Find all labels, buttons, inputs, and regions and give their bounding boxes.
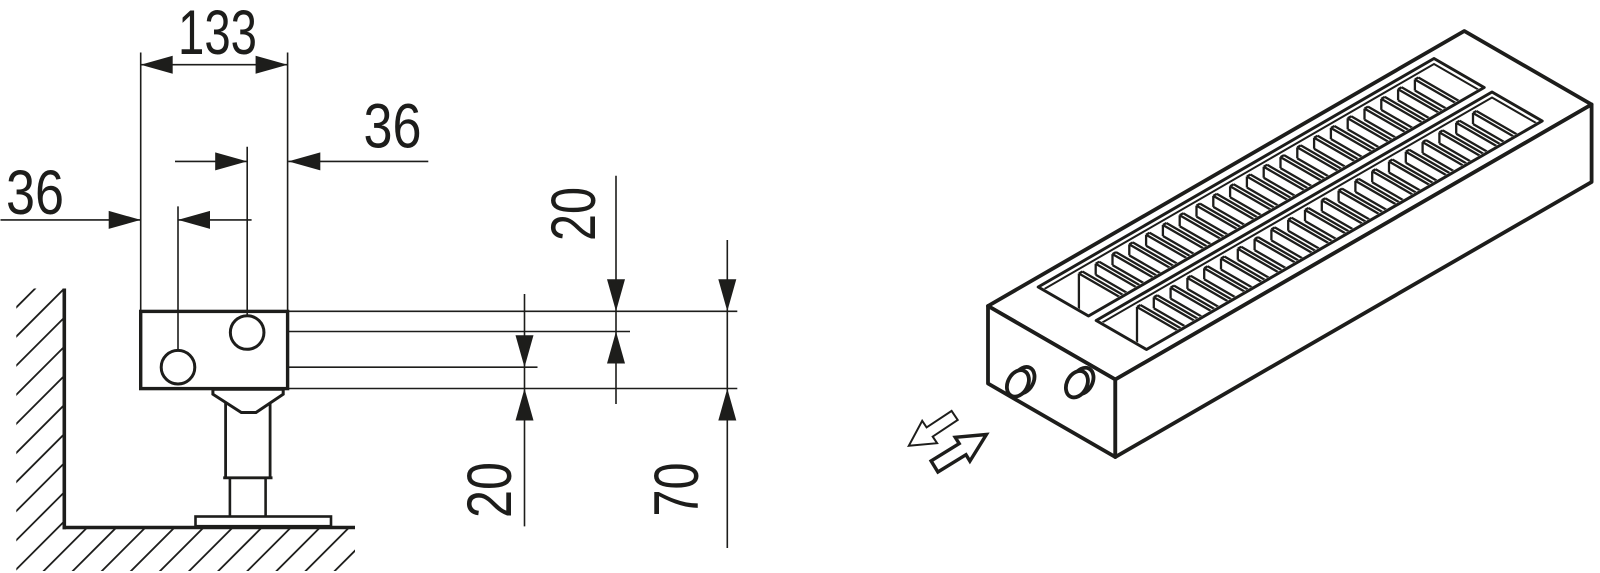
leg upper column <box>226 400 271 478</box>
dimension 133 <box>141 56 288 74</box>
svg-text:36: 36 <box>6 158 64 228</box>
slot 1 opening <box>1038 59 1484 317</box>
body top extension line <box>288 310 737 312</box>
leg lower column <box>230 478 266 517</box>
floor <box>63 526 356 530</box>
isometric convector outline <box>988 31 1592 457</box>
slot 2 opening <box>1096 92 1542 350</box>
svg-text:133: 133 <box>178 0 257 68</box>
upper connection hole <box>230 316 264 350</box>
svg-text:36: 36 <box>364 92 422 162</box>
convector body <box>141 311 288 388</box>
slot 1 fins <box>1079 78 1469 342</box>
label 36 left <box>6 158 64 228</box>
leg step <box>223 476 272 479</box>
label 20 top <box>539 187 609 241</box>
body bottom extension line <box>288 388 737 390</box>
leg funnel <box>213 389 283 412</box>
wall and floor hatching <box>0 280 655 573</box>
label 20 bottom <box>455 462 525 518</box>
foot plate <box>196 517 332 527</box>
dimension 36 left <box>1 211 252 229</box>
slot 1 inner lip <box>1038 64 1484 293</box>
left pipe stub <box>1002 363 1038 400</box>
label 36 top <box>364 92 422 162</box>
svg-text:20: 20 <box>539 187 609 241</box>
label 133 <box>178 0 257 68</box>
extension line upper hole <box>246 147 248 316</box>
slot 2 inner lip <box>1096 98 1542 327</box>
svg-text:20: 20 <box>455 462 525 518</box>
lower hole center line <box>195 366 538 368</box>
extension line body right <box>287 53 289 312</box>
flow arrow out (thin) <box>909 411 958 446</box>
wall <box>63 289 67 530</box>
slot 2 fins <box>1137 111 1527 375</box>
label 70 <box>642 463 712 517</box>
svg-text:70: 70 <box>642 463 712 517</box>
extension line lower hole <box>177 206 179 350</box>
extension line body left <box>140 53 142 312</box>
upper hole center line <box>264 331 630 333</box>
dimension 20 bottom <box>516 294 534 526</box>
lower connection hole <box>161 350 195 384</box>
right pipe stub <box>1061 364 1097 401</box>
flow arrow in (thick) <box>931 435 986 473</box>
dimension 70 <box>718 240 736 548</box>
dimension 36 top <box>175 152 428 170</box>
dimension 20 top <box>607 176 625 404</box>
